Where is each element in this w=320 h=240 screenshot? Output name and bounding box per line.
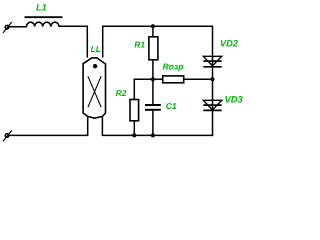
lamp LL body outline bbox=[83, 58, 105, 118]
wire terminal X1 to L1 bbox=[9, 26, 27, 28]
bottom wire lamp right leg to VD3 column bbox=[102, 134, 214, 136]
lamp LL electrode dot bbox=[93, 64, 97, 68]
svg-text:L1: L1 bbox=[36, 3, 47, 13]
resistor R1 leads bbox=[152, 26, 154, 79]
lamp bottom-right leg wire bbox=[101, 116, 103, 135]
lamp bottom-left leg wire bbox=[87, 116, 89, 135]
wire terminal X2 to lamp bottom-left leg bbox=[9, 134, 89, 136]
svg-text:VD2: VD2 bbox=[220, 38, 239, 48]
junction node at VD2/VD3 column bbox=[211, 77, 215, 81]
terminal X1 (top-left input pin) bbox=[3, 22, 12, 33]
diode VD2 top lead bbox=[212, 26, 214, 67]
junction node C1 top bbox=[151, 77, 155, 81]
middle wire node (R2 corner to Rozp to VD column) bbox=[134, 79, 212, 99]
inductor L1 core bar bbox=[25, 16, 63, 18]
svg-text:R1: R1 bbox=[134, 39, 145, 49]
diode VD3 bottom lead bbox=[212, 110, 214, 136]
resistor Roзp body bbox=[163, 76, 184, 83]
resistor R2 bottom lead bbox=[133, 121, 135, 136]
svg-text:LL: LL bbox=[91, 44, 101, 54]
terminal X2 (bottom-left pin) bbox=[3, 130, 12, 141]
wire L1 to lamp top-left pin bbox=[59, 26, 87, 57]
svg-text:C1: C1 bbox=[166, 101, 177, 111]
svg-text:VD3: VD3 bbox=[225, 94, 244, 104]
wire VD2 to VD3 bbox=[212, 67, 214, 111]
dinistor VD2 symbol bbox=[203, 56, 221, 67]
dinistor VD3 symbol bbox=[203, 100, 221, 110]
resistor R2 body bbox=[130, 100, 139, 121]
resistor R1 body bbox=[149, 37, 158, 60]
wire lamp top-right pin to right column bbox=[103, 26, 213, 57]
junction node at R1 top bbox=[151, 24, 155, 28]
svg-text:R2: R2 bbox=[116, 88, 127, 98]
junction node C1 bottom bbox=[151, 133, 155, 137]
capacitor C1 bottom lead bbox=[152, 111, 154, 135]
capacitor C1 top lead bbox=[152, 79, 154, 104]
inductor L1 (4 humps) bbox=[27, 22, 59, 26]
svg-text:Roзp: Roзp bbox=[163, 62, 184, 72]
junction node R2 bottom bbox=[132, 133, 136, 137]
lamp LL X mark bbox=[88, 76, 101, 107]
capacitor C1 plates bbox=[145, 105, 161, 110]
